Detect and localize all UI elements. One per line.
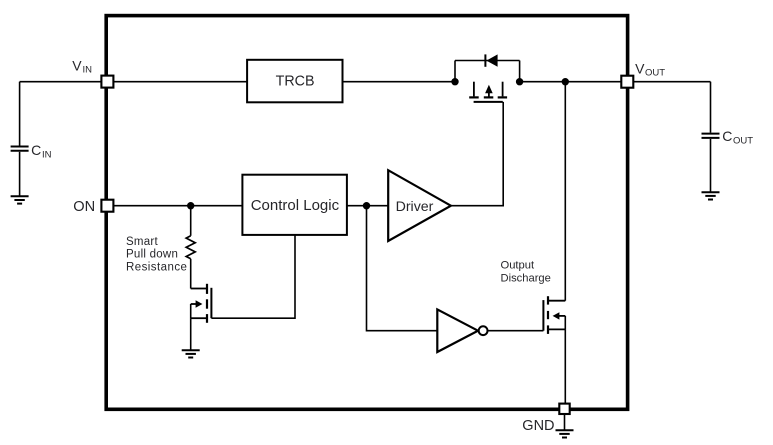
wire GND pin to ground: [564, 414, 566, 430]
capacitor CIN: [11, 82, 29, 197]
resistor R1 smart pull-down: [186, 206, 195, 289]
svg-text:ON: ON: [73, 199, 95, 215]
ground (below Q2): [182, 350, 200, 357]
buffer U1 Driver: [388, 170, 451, 241]
ground (below GND pin): [556, 430, 574, 437]
diode D1 body diode loop: [455, 54, 520, 81]
label VIN: [72, 57, 92, 75]
svg-text:Resistance: Resistance: [126, 261, 187, 273]
junction dot Q1 left: [451, 78, 458, 85]
label VOUT: [635, 60, 665, 78]
wire VIN external: [20, 81, 102, 83]
ground (below CIN): [11, 196, 29, 203]
wire Driver input to inverter: [367, 206, 438, 331]
block TRCB: [247, 60, 342, 103]
capacitor COUT: [702, 82, 720, 193]
transistor Q2 pull-down FET: [191, 284, 212, 350]
ground (below COUT): [702, 192, 720, 199]
transistor Q1 pass FET: [469, 82, 507, 102]
block Control Logic U3: [242, 175, 347, 235]
transistor Q3 output discharge FET: [543, 296, 565, 334]
svg-text:Control Logic: Control Logic: [251, 197, 340, 214]
svg-text:C: C: [722, 128, 732, 144]
wire TRCB to Q1: [343, 81, 456, 83]
node VOUT pin: [621, 76, 633, 88]
svg-text:C: C: [31, 142, 41, 158]
wire Q2 gate to Control Logic: [211, 235, 295, 318]
wire VIN to TRCB: [113, 81, 247, 83]
label Smart Pull down Resistance: [126, 236, 187, 273]
svg-text:IN: IN: [42, 150, 52, 161]
wire ON to Control Logic: [113, 205, 242, 207]
label CIN: [31, 142, 52, 161]
label COUT: [722, 128, 753, 146]
IC boundary box: [106, 16, 627, 410]
junction dot Driver input: [363, 202, 370, 209]
wire Q1 to VOUT pin: [520, 81, 622, 83]
svg-text:V: V: [72, 57, 82, 73]
wire VOUT rail to Q3 drain: [564, 82, 566, 301]
svg-text:GND: GND: [522, 418, 554, 434]
junction dot ON/R1: [187, 202, 194, 209]
svg-text:V: V: [635, 60, 645, 76]
node GND pin: [559, 404, 569, 414]
svg-text:Driver: Driver: [396, 199, 434, 215]
junction dot VOUT rail: [562, 78, 569, 85]
svg-text:Discharge: Discharge: [501, 273, 551, 285]
svg-text:IN: IN: [83, 65, 93, 76]
node ON pin: [101, 200, 113, 212]
wire Driver output to Q1 gate: [451, 102, 503, 206]
wire VOUT external: [633, 81, 710, 83]
wire Q3 source to GND pin: [564, 329, 566, 403]
wire inverter to Q3 gate: [488, 330, 544, 332]
wire Control Logic to Driver: [347, 205, 388, 207]
svg-text:Output: Output: [501, 260, 535, 272]
svg-text:OUT: OUT: [645, 68, 665, 79]
inverter U2: [437, 309, 487, 352]
node VIN pin: [101, 76, 113, 88]
label Output Discharge: [501, 260, 551, 285]
svg-text:OUT: OUT: [733, 136, 753, 147]
junction dot Q1 right: [516, 78, 523, 85]
svg-text:Pull down: Pull down: [126, 248, 178, 260]
svg-text:Smart: Smart: [126, 236, 158, 248]
svg-text:TRCB: TRCB: [276, 74, 315, 90]
